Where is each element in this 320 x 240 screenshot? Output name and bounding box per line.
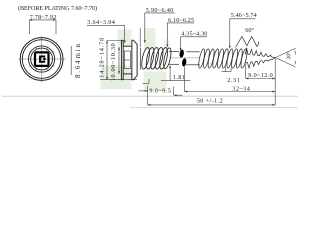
head recess lines — [124, 51, 131, 69]
green highlight patch above spring washer — [144, 28, 156, 50]
front view head circle — [28, 46, 54, 72]
recess corner ticks — [30, 47, 54, 71]
captive washer edge ellipse lower — [182, 58, 187, 67]
arrows 9.0~9.5 — [145, 90, 177, 96]
spring washer coils — [140, 47, 172, 70]
front view centerline horizontal — [19, 58, 66, 60]
svg-text:5.46~5.74: 5.46~5.74 — [231, 12, 257, 19]
flange disc side view — [132, 40, 137, 80]
coil bottom tick — [143, 79, 149, 84]
arrows 10.00 dim — [118, 47, 120, 74]
svg-text:9.0~9.5: 9.0~9.5 — [149, 88, 171, 95]
dim line 10.00~10.30 — [118, 47, 120, 74]
logo outer square ring — [35, 52, 49, 66]
tapered point bottom zigzag — [245, 58, 275, 68]
dim line 3.64~3.94 — [87, 25, 125, 42]
dim leader 5.46~5.74 — [230, 19, 256, 48]
green highlight patch above head — [118, 30, 132, 47]
svg-text:8.64min: 8.64min — [74, 44, 82, 79]
dim leader 1.81 — [161, 66, 190, 81]
dim leader 5.90~6.40 — [140, 13, 175, 47]
arrows 32~34 — [184, 91, 275, 93]
front view centerline vertical — [41, 36, 43, 83]
dim lines 9.0~12.0 — [246, 64, 276, 79]
front view outer flange circle — [20, 38, 63, 81]
svg-text:50 +/-1.2: 50 +/-1.2 — [197, 98, 223, 105]
logo inner C glyph — [40, 57, 45, 62]
captive washer edge ellipse upper — [179, 49, 184, 58]
green highlight patch below head — [101, 66, 132, 90]
dim line 7.78~7.92 — [29, 19, 56, 34]
dim lines 2.31 — [222, 67, 232, 72]
plain shank after captive washer — [186, 52, 200, 65]
dim lines 32~34 — [184, 67, 275, 92]
dim line 14.28~14.78 — [100, 41, 137, 80]
svg-text:10.00~10.30: 10.00~10.30 — [110, 43, 117, 81]
svg-text:14.28~14.78: 14.28~14.78 — [98, 38, 105, 78]
arrows 9.0~12.0 — [246, 78, 276, 80]
arrow 1.81 — [169, 65, 171, 68]
svg-text:1.81: 1.81 — [173, 74, 185, 81]
svg-text:30°: 30° — [286, 51, 293, 60]
dim line 8.64min — [70, 46, 72, 75]
leader arrowheads — [124, 40, 231, 50]
svg-text:2.31: 2.31 — [227, 77, 240, 84]
svg-text:60°: 60° — [245, 27, 254, 34]
front view recess circle — [31, 48, 53, 70]
dim lines 9.0~9.5 — [138, 86, 182, 105]
svg-text:(BEFORE PLATING 7.60~7.70): (BEFORE PLATING 7.60~7.70) — [18, 5, 97, 12]
green highlight patch below spring washer — [144, 72, 167, 92]
faint scan line lower — [130, 107, 298, 109]
flat washer disc side view — [121, 40, 123, 79]
green highlight small patch above shank — [164, 39, 170, 49]
washer bearing face line — [139, 48, 141, 70]
front view inner flange circle — [22, 40, 61, 79]
shank centerline — [169, 57, 199, 59]
thread zone helix loops — [198, 48, 249, 68]
faint scan line upper — [2, 95, 298, 97]
thread profile V detail — [236, 37, 259, 48]
dim leader 4.35~4.30 — [181, 37, 208, 50]
plain shank before captive washer — [169, 52, 179, 65]
tapered point top zigzag — [245, 48, 275, 58]
arrows 14.28 dim — [106, 41, 108, 80]
tip extension line — [274, 59, 276, 105]
dim leader 6.10~6.25 — [167, 23, 194, 47]
head crown box side view — [123, 46, 132, 74]
svg-text:3.64~3.94: 3.64~3.94 — [87, 19, 115, 26]
arrows 50 dim — [148, 104, 276, 106]
logo center dot — [43, 58, 45, 60]
dim line 50 — [148, 104, 276, 106]
point angle lines 30deg — [275, 48, 295, 67]
svg-text:9.0~12.0: 9.0~12.0 — [248, 72, 273, 79]
